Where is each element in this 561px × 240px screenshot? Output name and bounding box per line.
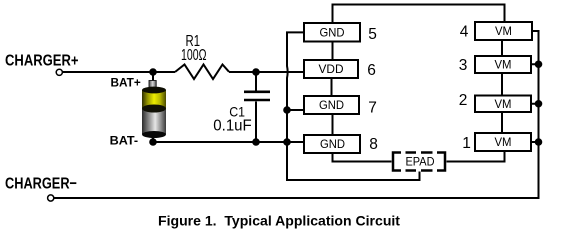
svg-text:GND: GND [320, 137, 345, 151]
svg-text:CHARGER−: CHARGER− [5, 175, 77, 192]
svg-text:6: 6 [367, 62, 376, 79]
svg-text:3: 3 [459, 57, 468, 74]
svg-text:100Ω: 100Ω [181, 47, 207, 64]
svg-text:1: 1 [462, 135, 471, 152]
svg-text:VDD: VDD [319, 62, 344, 76]
svg-text:GND: GND [319, 98, 344, 112]
svg-text:GND: GND [320, 26, 345, 40]
svg-text:BAT+: BAT+ [111, 76, 141, 90]
svg-text:Figure 1. Typical Application: Figure 1. Typical Application Circuit [158, 213, 400, 229]
svg-text:VM: VM [495, 26, 512, 38]
svg-text:VM: VM [495, 137, 512, 149]
svg-text:7: 7 [368, 100, 377, 117]
svg-text:2: 2 [459, 92, 468, 109]
svg-text:EPAD: EPAD [406, 157, 435, 169]
svg-text:VM: VM [495, 99, 512, 111]
svg-text:VM: VM [495, 60, 512, 72]
svg-text:5: 5 [368, 26, 377, 43]
svg-text:0.1uF: 0.1uF [213, 118, 252, 135]
svg-text:4: 4 [460, 23, 469, 40]
svg-text:8: 8 [369, 136, 378, 153]
svg-text:CHARGER+: CHARGER+ [5, 53, 79, 70]
svg-text:BAT-: BAT- [110, 133, 139, 147]
